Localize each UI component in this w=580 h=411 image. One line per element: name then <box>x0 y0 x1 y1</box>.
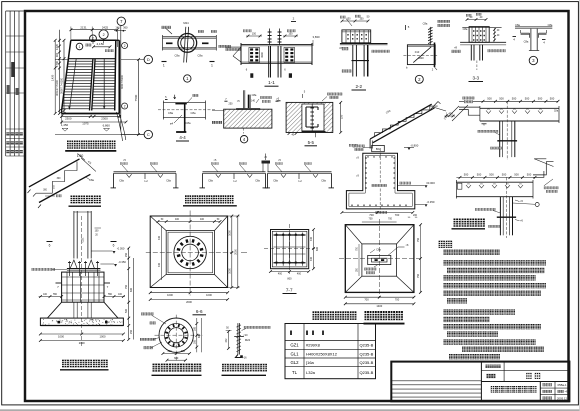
svg-text:GL2: GL2 <box>290 360 299 365</box>
svg-text:800: 800 <box>130 287 133 292</box>
svg-text:500: 500 <box>502 172 507 176</box>
svg-text:3,830: 3,830 <box>313 35 320 39</box>
svg-text:C8a: C8a <box>463 27 468 31</box>
svg-text:-0.050: -0.050 <box>117 247 125 251</box>
svg-text:≠10: ≠10 <box>415 50 420 54</box>
svg-text:2-2: 2-2 <box>355 84 362 89</box>
svg-text:300: 300 <box>193 326 196 331</box>
svg-text:2000: 2000 <box>186 300 192 304</box>
svg-text:C8a: C8a <box>548 23 553 27</box>
svg-text:600: 600 <box>198 333 201 338</box>
svg-text:400: 400 <box>200 218 205 221</box>
svg-text:6-6: 6-6 <box>196 309 203 314</box>
svg-text:150: 150 <box>252 32 257 35</box>
svg-text:#299X8: #299X8 <box>306 343 321 348</box>
svg-text:[16a: [16a <box>306 360 315 365</box>
svg-text:1: 1 <box>79 45 81 49</box>
svg-text:1,450: 1,450 <box>61 123 69 127</box>
svg-text:150: 150 <box>288 32 293 35</box>
svg-text:800: 800 <box>316 246 319 251</box>
svg-text:C8a: C8a <box>554 111 559 113</box>
svg-text:≠16: ≠16 <box>242 357 247 360</box>
svg-text:C8a: C8a <box>208 179 213 182</box>
svg-text:-0.350: -0.350 <box>427 200 435 204</box>
svg-text:2131: 2131 <box>80 25 87 29</box>
svg-text:C8a: C8a <box>524 40 529 44</box>
svg-text:400: 400 <box>310 256 313 261</box>
svg-text:146: 146 <box>115 25 120 29</box>
svg-text:250: 250 <box>130 329 133 334</box>
svg-text:L32a: L32a <box>306 370 316 375</box>
svg-text:1000: 1000 <box>228 268 231 274</box>
svg-text:360: 360 <box>123 25 128 29</box>
svg-text:700: 700 <box>364 297 369 301</box>
svg-text:C8a: C8a <box>186 121 191 125</box>
svg-text:2: 2 <box>124 104 126 108</box>
svg-text:5-5: 5-5 <box>308 140 315 145</box>
svg-text:Q235-B: Q235-B <box>360 351 374 356</box>
svg-text:C8a: C8a <box>423 22 428 26</box>
svg-text:1000: 1000 <box>206 293 212 297</box>
svg-text:1000: 1000 <box>58 334 64 338</box>
svg-text:Q235-B: Q235-B <box>360 370 374 375</box>
svg-text:7500: 7500 <box>134 94 138 101</box>
svg-text:1420: 1420 <box>55 43 59 50</box>
svg-text:140: 140 <box>251 100 256 103</box>
svg-text:7-7: 7-7 <box>286 288 293 293</box>
svg-text:GL1: GL1 <box>290 351 299 356</box>
svg-text:TL: TL <box>292 370 298 375</box>
svg-text:500: 500 <box>550 97 555 101</box>
svg-text:4,150: 4,150 <box>97 42 105 46</box>
svg-text:M24: M24 <box>183 21 189 25</box>
svg-text:1-1: 1-1 <box>268 80 275 85</box>
svg-text:1700: 1700 <box>55 60 59 67</box>
svg-text:4340: 4340 <box>260 52 264 58</box>
svg-text:C8a: C8a <box>119 179 124 182</box>
svg-text:1,420: 1,420 <box>51 74 55 81</box>
svg-text:150: 150 <box>340 114 344 119</box>
svg-text:C8a: C8a <box>273 179 278 182</box>
svg-text:C8a: C8a <box>252 93 257 97</box>
svg-text:1: 1 <box>163 64 165 68</box>
svg-text:Q235-B: Q235-B <box>360 343 374 348</box>
svg-text:6: 6 <box>113 244 115 248</box>
svg-text:342: 342 <box>225 338 228 343</box>
svg-text:2300: 2300 <box>65 116 72 120</box>
svg-text:3-3: 3-3 <box>472 76 479 81</box>
svg-text:1075: 1075 <box>82 122 89 126</box>
svg-text:1000: 1000 <box>228 230 231 236</box>
svg-text:2: 2 <box>124 44 126 48</box>
svg-text:30017=5100: 30017=5100 <box>121 74 124 89</box>
svg-text:1000: 1000 <box>167 293 173 297</box>
svg-text:500: 500 <box>538 97 543 101</box>
svg-text:30067.7=5100: 30067.7=5100 <box>60 77 63 94</box>
svg-text:500: 500 <box>464 172 469 176</box>
svg-text:C8a: C8a <box>198 54 203 58</box>
svg-text:750: 750 <box>417 273 420 278</box>
svg-text:C8a: C8a <box>168 111 173 115</box>
svg-text:500: 500 <box>489 172 494 176</box>
svg-text:H400X250X8X12: H400X250X8X12 <box>306 351 338 356</box>
svg-text:500: 500 <box>477 172 482 176</box>
svg-text:-0.350: -0.350 <box>118 260 126 264</box>
svg-text:2425: 2425 <box>102 25 109 29</box>
svg-text:6: 6 <box>49 244 51 248</box>
svg-text:700: 700 <box>395 213 400 217</box>
svg-text:250: 250 <box>229 103 234 106</box>
svg-text:1400: 1400 <box>376 304 382 308</box>
svg-text:300: 300 <box>167 350 172 353</box>
svg-text:GZ1: GZ1 <box>290 343 299 348</box>
svg-text:2000: 2000 <box>79 341 85 345</box>
svg-text:C8a: C8a <box>191 111 196 115</box>
svg-text:500: 500 <box>499 97 504 101</box>
svg-text:C8a: C8a <box>255 179 260 182</box>
svg-text:2005.12: 2005.12 <box>557 396 568 400</box>
svg-text:C8a: C8a <box>321 179 326 182</box>
svg-text:1: 1 <box>211 64 213 68</box>
svg-text:1000: 1000 <box>100 334 106 338</box>
svg-text:400: 400 <box>158 235 161 240</box>
svg-text:800: 800 <box>287 278 292 281</box>
svg-text:300: 300 <box>181 350 186 353</box>
svg-text:-0.800: -0.800 <box>410 143 418 147</box>
svg-text:500: 500 <box>525 97 530 101</box>
svg-text:500: 500 <box>527 172 532 176</box>
svg-text:-45: -45 <box>564 390 568 394</box>
svg-text:300: 300 <box>55 52 59 57</box>
svg-text:Q235-B: Q235-B <box>360 360 374 365</box>
svg-text:500: 500 <box>512 97 517 101</box>
svg-text:2: 2 <box>103 33 105 37</box>
svg-text:400: 400 <box>297 273 302 276</box>
svg-text:C8a: C8a <box>515 23 520 27</box>
svg-text:250: 250 <box>125 252 128 257</box>
svg-text:GZ1: GZ1 <box>81 237 85 243</box>
svg-text:750: 750 <box>417 237 420 242</box>
svg-text:400: 400 <box>278 273 283 276</box>
svg-text:500: 500 <box>487 97 492 101</box>
svg-text:400: 400 <box>175 218 180 221</box>
svg-text:≠10: ≠10 <box>243 334 248 337</box>
svg-text:C8a: C8a <box>175 54 180 58</box>
svg-text:300x17=5100: 300x17=5100 <box>55 80 59 96</box>
svg-text:C: C <box>147 132 150 137</box>
svg-text:750: 750 <box>125 284 128 289</box>
svg-text:700: 700 <box>388 218 393 221</box>
svg-text:ø4: ø4 <box>170 122 174 126</box>
svg-text:500: 500 <box>125 308 128 313</box>
svg-text:05Ba-1: 05Ba-1 <box>557 383 566 387</box>
svg-text:150: 150 <box>359 17 364 20</box>
svg-text:M22: M22 <box>245 338 251 342</box>
svg-text:4-4: 4-4 <box>179 135 186 140</box>
svg-text:500: 500 <box>514 172 519 176</box>
svg-text:700: 700 <box>395 297 400 301</box>
svg-text:6,860: 6,860 <box>103 123 111 127</box>
svg-text:D: D <box>147 57 150 62</box>
svg-text:700: 700 <box>369 213 374 217</box>
svg-text:C8a: C8a <box>166 179 171 182</box>
svg-text:400: 400 <box>310 236 313 241</box>
svg-text:700: 700 <box>369 218 374 221</box>
svg-text:M20: M20 <box>418 56 424 60</box>
svg-text:C8a: C8a <box>376 248 381 251</box>
svg-text:2300: 2300 <box>101 116 108 120</box>
svg-text:±0.000: ±0.000 <box>426 181 435 185</box>
svg-text:400: 400 <box>158 262 161 267</box>
svg-text:2000: 2000 <box>234 249 237 255</box>
svg-text:600: 600 <box>174 357 179 360</box>
svg-text:C8a: C8a <box>89 178 94 182</box>
svg-text:300: 300 <box>193 339 196 344</box>
